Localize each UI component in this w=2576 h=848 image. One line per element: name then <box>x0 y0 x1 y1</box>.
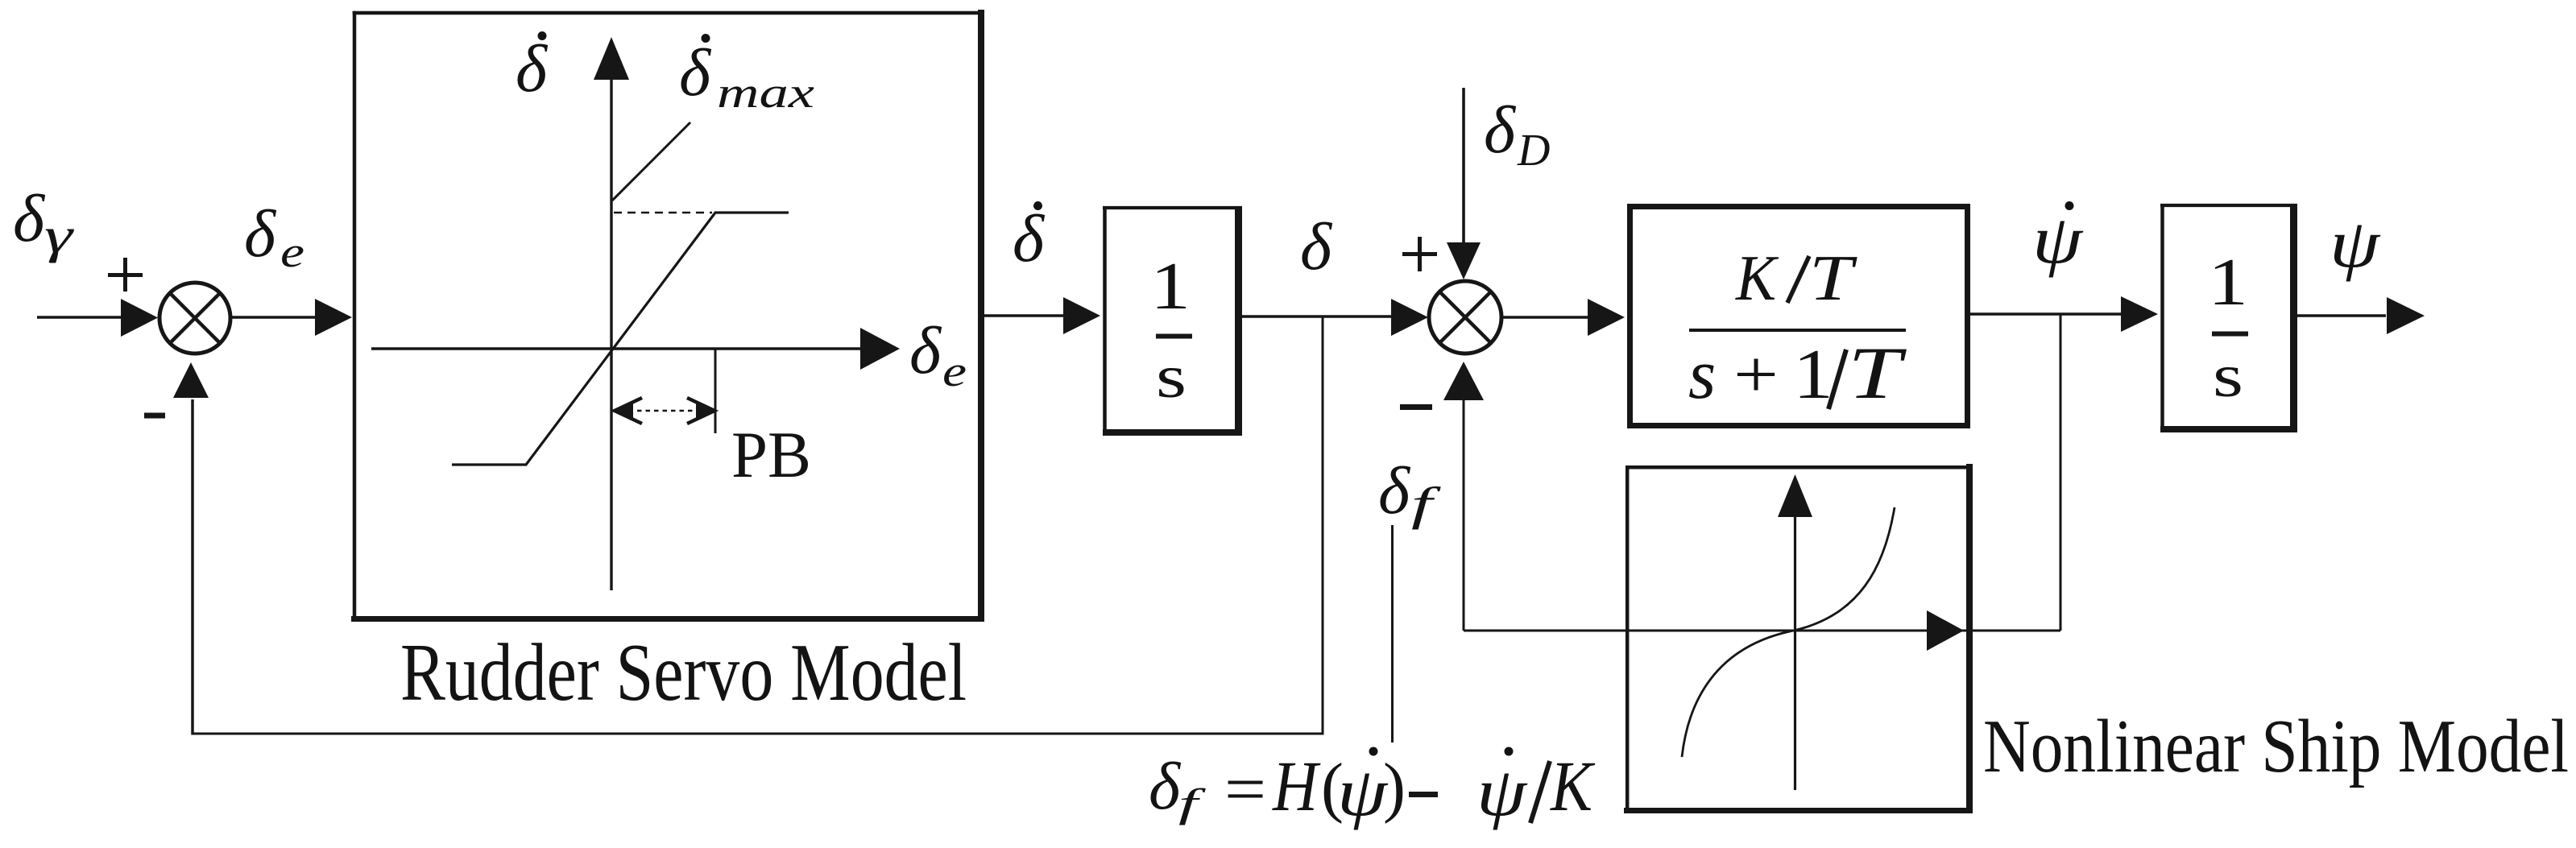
svg-text:γ: γ <box>44 209 74 263</box>
wire: delta feedback up into S1 <box>191 399 194 735</box>
wire delta_D input <box>1462 88 1465 244</box>
graph horizontal axis (delta_e) <box>371 347 862 350</box>
wire: input delta_gamma <box>37 316 125 319</box>
summing junction S2 <box>1429 281 1501 354</box>
nonlinear graph vertical axis <box>1794 515 1796 790</box>
svg-text:1: 1 <box>1793 336 1833 414</box>
wire: delta feedback bottom run <box>192 733 1324 735</box>
svg-text:δ: δ <box>679 35 712 110</box>
PB boundary tick <box>714 349 717 433</box>
label + (S2) <box>1402 237 1437 271</box>
wire: psi-dot feedback into nonlinear block (graph horizontal axis) <box>1464 630 2060 632</box>
label + (summing junction S1) <box>108 258 143 292</box>
block: integrator 1 (1/s) <box>1103 206 1242 209</box>
formula delta_f = H(psi-dot) - psi-dot/K <box>1149 747 1596 831</box>
unsaturated slope segment <box>612 122 690 201</box>
svg-text:f: f <box>1178 780 1207 825</box>
svg-text:T: T <box>1809 243 1858 314</box>
svg-text:ψ: ψ <box>2330 205 2381 282</box>
svg-text:1: 1 <box>1150 249 1191 324</box>
leader line from delta_f to formula <box>1391 525 1394 743</box>
saturation ramp curve <box>452 213 789 465</box>
graph vertical axis (delta-dot) <box>610 78 612 590</box>
label psi-dot (ship output) <box>2032 201 2084 278</box>
wire ship block to integrator2 <box>1970 312 2123 316</box>
wire: delta feedback branch down <box>1322 316 1324 734</box>
svg-text:δ: δ <box>1378 453 1411 528</box>
label - (S1) <box>144 413 165 419</box>
label delta_gamma <box>13 181 74 263</box>
label delta-dot (servo output) <box>1013 201 1046 276</box>
block: integrator 2 (1/s) <box>2160 204 2297 207</box>
label delta-dot (vertical axis) <box>516 31 549 106</box>
svg-text:s: s <box>1688 336 1716 414</box>
svg-text:e: e <box>280 228 304 276</box>
svg-text:T: T <box>1848 332 1907 414</box>
svg-text:): ) <box>1383 750 1406 825</box>
label delta_f (into S2) <box>1378 453 1441 530</box>
svg-text:δ: δ <box>1300 209 1333 284</box>
wire delta_f up into S2 <box>1463 399 1465 631</box>
nonlinear S-curve <box>1682 507 1895 757</box>
svg-text:ψ: ψ <box>1337 753 1389 830</box>
svg-text:s: s <box>1156 343 1187 411</box>
label delta_e (S1 output) <box>244 196 304 276</box>
svg-text:δ: δ <box>1013 201 1046 276</box>
svg-text:δ: δ <box>909 313 942 388</box>
svg-text:1: 1 <box>2208 245 2248 320</box>
block: Rudder Servo Model box <box>353 11 984 15</box>
svg-text:ψ: ψ <box>1476 753 1528 830</box>
wire: output psi <box>2297 314 2386 317</box>
wire: psi-dot branch down <box>2060 314 2062 631</box>
svg-text:δ: δ <box>244 196 277 271</box>
summing junction S1 <box>159 283 230 354</box>
wire integrator1 to S2 <box>1242 315 1394 318</box>
wire S1 to rudder servo block <box>230 316 316 319</box>
block: ship transfer function K/T over s+1/T <box>1630 207 1968 426</box>
wire servo to integrator1 <box>984 314 1065 317</box>
dashed saturation level <box>614 212 712 214</box>
block: Nonlinear Ship Model box <box>1626 465 1973 470</box>
svg-text:ψ: ψ <box>2032 201 2084 278</box>
svg-text:f: f <box>1411 478 1441 530</box>
svg-text:δ: δ <box>516 31 549 106</box>
svg-text:max: max <box>717 68 814 117</box>
label - (S2) <box>1400 404 1432 410</box>
svg-text:s: s <box>2213 342 2243 410</box>
svg-text:K: K <box>1549 747 1596 826</box>
label delta_e (horizontal axis) <box>909 313 967 395</box>
svg-text:e: e <box>942 347 967 395</box>
svg-text:δ: δ <box>1484 93 1517 168</box>
svg-text:PB: PB <box>731 418 811 491</box>
label delta_D <box>1484 93 1550 176</box>
svg-text:H: H <box>1272 747 1321 826</box>
svg-text:K: K <box>1735 243 1779 314</box>
svg-text:Nonlinear Ship Model: Nonlinear Ship Model <box>1983 705 2569 788</box>
minus sign in formula <box>1409 792 1438 797</box>
svg-text:δ: δ <box>13 181 46 256</box>
svg-text:δ: δ <box>1149 749 1182 824</box>
slash in formula <box>1530 761 1550 823</box>
svg-text:D: D <box>1517 126 1550 176</box>
label delta-dot max <box>679 34 814 117</box>
PB dashed double arrow <box>620 410 709 412</box>
wire S2 to ship transfer block <box>1501 316 1589 319</box>
svg-text:=: = <box>1224 752 1266 827</box>
svg-text:+: + <box>1733 337 1779 412</box>
svg-text:Rudder Servo Model: Rudder Servo Model <box>400 627 967 718</box>
